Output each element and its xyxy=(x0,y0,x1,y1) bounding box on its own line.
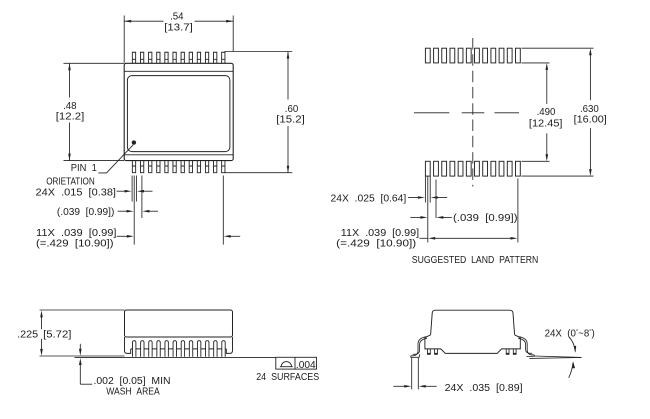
dim 24X .015 extension lines (pin1 edges and center) xyxy=(131,176,133,202)
svg-text:(=.429 [10.90]): (=.429 [10.90]) xyxy=(336,239,416,250)
side view: seating plane line xyxy=(75,357,276,359)
svg-text:24X .035 [0.89]: 24X .035 [0.89] xyxy=(445,383,523,394)
side view: body upper outline xyxy=(125,310,233,337)
dim land (.039) arrows xyxy=(410,216,422,218)
dim .002 upper arrow xyxy=(79,344,81,351)
dim .225 dimension line with arrows xyxy=(41,316,43,330)
svg-text:.490: .490 xyxy=(537,107,556,118)
dim .002 lower arrow and leader xyxy=(79,358,82,365)
dim land (.039) pad2 center extension line xyxy=(435,180,437,219)
surface profile symbol (half circle on line) xyxy=(281,362,291,367)
dim .54 dimension line with arrows xyxy=(124,20,163,22)
side view: body lower outline right hook xyxy=(226,337,232,353)
end view: angle reference wedge lines xyxy=(534,356,581,357)
dim .630 dimension line with arrows xyxy=(589,54,591,100)
side view: top extension line for .225 xyxy=(40,309,125,311)
svg-text:[15.2]: [15.2] xyxy=(276,115,305,126)
svg-text:SUGGESTED LAND PATTERN: SUGGESTED LAND PATTERN xyxy=(412,255,539,266)
dim land 11X leader tick xyxy=(420,237,428,239)
svg-text:(.039 [0.99]): (.039 [0.99]) xyxy=(453,213,518,224)
dim land 11X extension line at pad12 center xyxy=(517,179,519,243)
dim .54 extension lines xyxy=(123,16,125,63)
svg-text:.004: .004 xyxy=(296,360,316,371)
end view: four standoff feet xyxy=(428,349,431,354)
svg-text:24X .025 [0.64]: 24X .025 [0.64] xyxy=(331,193,407,204)
svg-text:[12.45]: [12.45] xyxy=(529,119,563,130)
dim .60 dimension line with arrows xyxy=(287,52,289,100)
dim 24X .025 extension lines (pad1 edges and center) xyxy=(424,176,426,202)
dim .60 extension lines xyxy=(224,51,292,53)
end view: right lead xyxy=(519,337,535,355)
dim 24X .025 arrows xyxy=(408,197,420,199)
svg-text:24X (0°~8°): 24X (0°~8°) xyxy=(545,328,595,339)
dim .490 dimension line with arrows xyxy=(546,68,548,104)
svg-text:(.039 [0.99]): (.039 [0.99]) xyxy=(57,207,115,218)
top view: inner body rounded outline xyxy=(127,76,229,152)
dim (.039) arrows xyxy=(118,210,129,212)
land pattern: horizontal dashed centerline xyxy=(414,112,449,114)
land pattern: 12 pads bottom row xyxy=(425,161,430,176)
svg-text:11X .039 [0.99]: 11X .039 [0.99] xyxy=(36,228,117,239)
top view: pin 1 orientation dot xyxy=(132,140,136,144)
svg-text:.225: .225 xyxy=(17,329,38,340)
side view: body bottom reference line (wash plane) xyxy=(40,355,125,357)
top view: package body outline xyxy=(124,63,233,160)
surface profile callout box xyxy=(276,357,317,369)
svg-text:PIN 1: PIN 1 xyxy=(71,163,97,174)
dim .630 extension lines xyxy=(522,47,594,49)
dim (.039) pin2 center extension line xyxy=(141,176,143,219)
svg-text:[5.72]: [5.72] xyxy=(43,330,71,341)
dim .035 extension lines xyxy=(411,358,413,390)
side view: body lower outline left hook xyxy=(125,337,131,353)
dim .035 arrows xyxy=(393,385,406,387)
svg-text:[12.2]: [12.2] xyxy=(56,111,85,122)
land pattern: vertical dashed centerline xyxy=(472,38,474,187)
dim .48 extension lines xyxy=(64,62,125,64)
dim angle arc lower with arrow xyxy=(569,363,573,378)
side view: 12 gull-wing leads xyxy=(133,341,136,357)
dim .48 dimension line with arrows xyxy=(69,63,71,97)
svg-text:.48: .48 xyxy=(63,101,76,112)
svg-text:.54: .54 xyxy=(170,11,184,22)
dim 11X arrows xyxy=(117,235,129,237)
dim angle arc upper with arrow xyxy=(569,337,575,351)
dim 11X extension line at pin12 center xyxy=(222,176,224,245)
svg-text:.630: .630 xyxy=(580,104,599,115)
side view: body bottom edge line xyxy=(131,348,227,350)
svg-text:11X .039 [0.99]: 11X .039 [0.99] xyxy=(341,228,419,239)
end view: left lead xyxy=(411,337,427,356)
land pattern: 12 pads top row xyxy=(425,48,430,63)
leader line from pin1 dot to PIN 1 label xyxy=(98,145,133,173)
top view: 12 pins bottom row xyxy=(132,161,135,173)
svg-text:24 SURFACES: 24 SURFACES xyxy=(256,372,319,383)
dim .490 extension lines xyxy=(522,62,550,64)
svg-text:WASH AREA: WASH AREA xyxy=(106,386,160,397)
svg-text:ORIETATION: ORIETATION xyxy=(46,177,95,188)
top view: body end-cap step lines xyxy=(124,70,233,72)
svg-text:[13.7]: [13.7] xyxy=(164,23,193,34)
dim 24X .015 arrows xyxy=(117,190,127,192)
svg-text:(=.429 [10.90]): (=.429 [10.90]) xyxy=(36,239,114,250)
svg-text:.60: .60 xyxy=(285,104,299,115)
svg-text:24X .015 [0.38]: 24X .015 [0.38] xyxy=(36,187,117,198)
end view: body outline xyxy=(431,310,515,335)
top view: 12 pins top row xyxy=(132,52,135,63)
dim land 11X dimension line with outward arrows xyxy=(433,237,513,239)
svg-text:[16.00]: [16.00] xyxy=(574,114,607,125)
